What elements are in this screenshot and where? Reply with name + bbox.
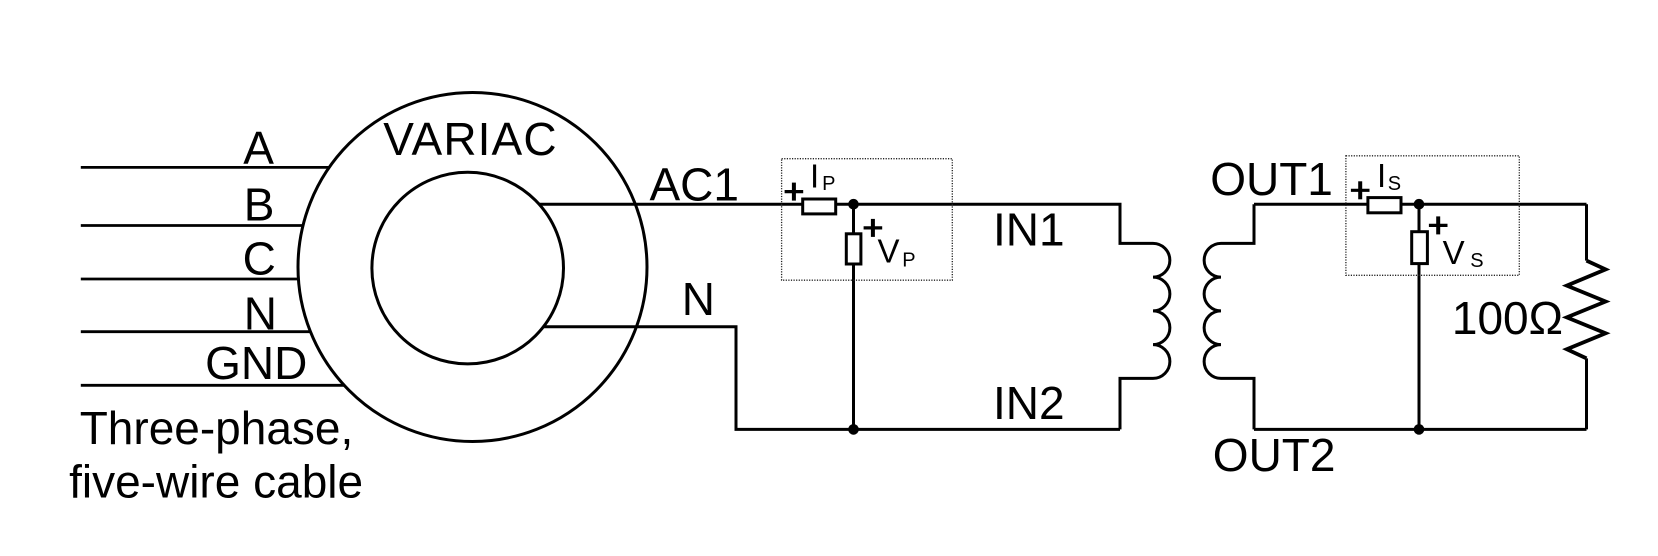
svg-text:B: B	[244, 178, 275, 230]
svg-text:C: C	[243, 233, 276, 285]
node junction secondary top	[1414, 199, 1425, 210]
svg-text:AC1: AC1	[650, 159, 739, 211]
wire load top lead	[1585, 204, 1588, 260]
wire load bottom lead	[1585, 358, 1588, 429]
transformer secondary winding	[1204, 204, 1254, 429]
current shunt Ip	[803, 199, 836, 214]
svg-text:N: N	[682, 273, 715, 325]
svg-text:V: V	[1443, 234, 1465, 271]
node junction secondary bottom	[1414, 424, 1425, 435]
wire neutral N	[81, 330, 311, 333]
svg-text:A: A	[243, 122, 274, 174]
current shunt Is	[1368, 198, 1401, 213]
voltage sense resistor Vp	[846, 234, 861, 264]
svg-text:V: V	[878, 233, 900, 270]
plus sign Vs	[1429, 216, 1448, 234]
node junction primary top	[848, 199, 859, 210]
svg-text:GND: GND	[205, 337, 307, 389]
svg-text:S: S	[1470, 250, 1483, 272]
svg-text:N: N	[244, 287, 277, 339]
plus sign Ip	[785, 183, 804, 201]
wire phase B	[81, 224, 304, 227]
plus sign Is	[1351, 181, 1370, 199]
wire N from variac to IN2 rail	[544, 327, 1120, 430]
svg-text:OUT2: OUT2	[1213, 429, 1336, 481]
svg-text:P: P	[822, 173, 835, 195]
svg-text:P: P	[902, 250, 915, 272]
variac inner circle	[372, 172, 564, 364]
wire AC1 from variac to transformer IN1	[539, 204, 1153, 243]
svg-text:IN2: IN2	[993, 377, 1065, 429]
svg-text:Three-phase,: Three-phase,	[80, 402, 354, 454]
voltage sense resistor Vs	[1412, 232, 1428, 264]
svg-text:IN1: IN1	[993, 203, 1065, 255]
svg-text:I: I	[1377, 157, 1386, 194]
transformer primary winding	[1120, 243, 1170, 429]
variac outer circle	[298, 93, 647, 442]
svg-text:S: S	[1388, 173, 1401, 195]
svg-text:100Ω: 100Ω	[1452, 292, 1563, 344]
svg-text:I: I	[810, 158, 819, 195]
node junction primary bottom	[848, 424, 859, 435]
svg-text:OUT1: OUT1	[1210, 153, 1333, 205]
wire Vp stem	[852, 204, 855, 429]
wire Vs stem	[1418, 204, 1421, 429]
wire GND	[81, 384, 345, 387]
wire phase A	[81, 166, 330, 169]
plus sign Vp	[864, 219, 883, 237]
wire phase C	[81, 278, 299, 281]
svg-text:VARIAC: VARIAC	[383, 113, 557, 165]
wire OUT2 rail	[1254, 428, 1587, 431]
svg-text:five-wire cable: five-wire cable	[69, 456, 363, 508]
resistor 100 ohm load	[1567, 261, 1606, 359]
wire OUT1 rail	[1254, 203, 1587, 206]
secondary meter dotted box	[1346, 156, 1519, 275]
primary meter dotted box	[782, 159, 953, 281]
